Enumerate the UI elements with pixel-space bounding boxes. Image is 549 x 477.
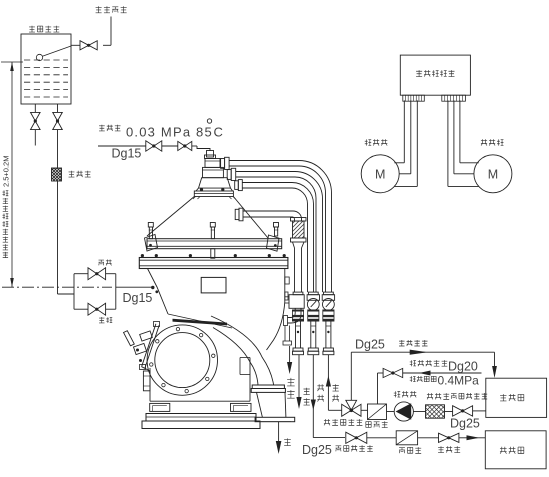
nameplate [201, 277, 226, 293]
label 冷凝器 [399, 447, 421, 453]
pump 螺杆泵 [394, 402, 413, 421]
valve 开启 [88, 303, 106, 315]
wire seal mid [162, 145, 178, 147]
tower block A [205, 159, 220, 168]
label 加热器 [366, 421, 388, 427]
label 高置水箱 [29, 26, 59, 32]
bowl cone [147, 197, 194, 237]
bowl casing left edge [148, 269, 169, 315]
wire clean water inlet [110, 17, 112, 46]
pipe P2 [242, 183, 313, 293]
line 污油 [327, 355, 329, 411]
pipe P1 [243, 211, 302, 221]
label 开启 [99, 317, 112, 323]
outlet stub 1 [221, 159, 225, 169]
bypass bottom pipe [74, 308, 88, 310]
filter 油滤器 [426, 405, 445, 418]
assembly A3 gauge [324, 292, 334, 295]
wire pump to filter [413, 411, 425, 413]
svg-text:Dg20: Dg20 [448, 360, 478, 374]
outlet stub 3 [235, 181, 239, 190]
tank 净油罐 [485, 431, 546, 469]
svg-text:Dg25: Dg25 [355, 338, 385, 352]
outlet stub 4 [235, 209, 239, 219]
wire 3way to heater [361, 409, 368, 411]
top rail [147, 239, 282, 249]
svg-text:Dg15: Dg15 [123, 291, 153, 305]
bolt B2 [210, 223, 215, 228]
label 分离机 [481, 139, 504, 145]
tank 污油罐 [486, 378, 547, 417]
label 污油循环 [399, 340, 428, 346]
svg-text:M: M [488, 167, 498, 181]
terminal strip right [442, 95, 466, 101]
chute flange joint [252, 385, 284, 389]
bypass left pipe [73, 274, 75, 310]
heater 加热器 [368, 404, 387, 420]
valve seal-2 [178, 141, 192, 150]
wire bottom row left [313, 437, 345, 439]
valve 手动三通阀 [342, 404, 361, 416]
centerline dash-dot [2, 286, 112, 288]
housing bottom [150, 400, 250, 402]
condenser 冷凝器 [396, 431, 417, 445]
cover circle inner [155, 333, 210, 388]
wire heater to pump [387, 411, 395, 413]
wire to condenser [367, 437, 396, 439]
wire bypass to machine [116, 286, 153, 288]
svg-text:M: M [375, 167, 385, 181]
foot pad right [231, 403, 252, 411]
label 止回阀 [438, 446, 460, 452]
cover diagonal plate [142, 324, 156, 367]
vent lever [124, 331, 135, 346]
label 蒸汽调节阀 [410, 360, 448, 366]
wires M1 [403, 100, 405, 162]
wire tank outlet left [34, 104, 36, 113]
label 清洁淡水 [96, 6, 127, 12]
terminal strip left [403, 95, 425, 101]
inlet nozzle [207, 151, 214, 158]
wire right outlet down [57, 130, 59, 168]
arrow 污水 A1 [298, 355, 300, 397]
base plate upper [146, 414, 256, 422]
chute column [257, 392, 263, 417]
rail end plate left [145, 235, 158, 252]
svg-text:2.5+0.2M: 2.5+0.2M [2, 156, 11, 187]
wire tank outlet right [57, 104, 59, 113]
assembly A2 gauge [308, 292, 318, 295]
foot pad left [150, 403, 170, 411]
label 蒸汽压力0.4MPa [410, 376, 436, 382]
svg-text:C: C [214, 125, 223, 140]
dark chute lip [173, 319, 228, 326]
chute outer curve [211, 316, 274, 385]
tank water level dashes [24, 59, 68, 61]
slag arrow 渣 [278, 422, 280, 441]
wires M2 [459, 100, 461, 162]
valve tank outlet right [53, 112, 63, 129]
label 净油罐 [500, 447, 524, 454]
line 净油 [312, 355, 314, 438]
bypass right pipe [115, 274, 117, 310]
wire to check valve [418, 437, 439, 439]
tower flange plate [194, 191, 233, 197]
check valve 止回阀 [439, 433, 459, 442]
tank T1 高置水箱 [21, 34, 71, 104]
cover flange strip [139, 258, 288, 269]
wire seal to inlet [192, 145, 197, 147]
tower block B [203, 167, 224, 177]
valve 流量调节阀 upper [453, 406, 473, 416]
label 污油罐 [500, 394, 524, 401]
wire to tank2 [459, 437, 485, 439]
label 流量调节阀 upper [451, 393, 487, 399]
svg-text:Dg25: Dg25 [302, 443, 332, 457]
bowl casing right edge [284, 269, 286, 303]
housing left port [143, 371, 150, 391]
dimension line 2.5+0.2M [1, 61, 23, 63]
label 电气控制箱 [416, 70, 454, 76]
sight glass on P1 [291, 218, 307, 222]
valve 密封 [88, 268, 106, 280]
chute bottom flange [255, 417, 295, 421]
bolt B3 [274, 223, 279, 228]
wire filter to bypass [57, 181, 59, 294]
float valve [36, 54, 42, 60]
label 密封 [99, 260, 112, 266]
wire water seal [98, 145, 146, 147]
svg-text:Dg25: Dg25 [450, 417, 480, 431]
steam supply line [403, 372, 482, 374]
recirc line [350, 352, 352, 400]
valve seal-1 [146, 141, 162, 151]
pipe P3 [236, 172, 323, 293]
outlet stub 2 [227, 170, 231, 180]
label 油滤器 [427, 393, 449, 399]
valve 蒸汽调节阀 [383, 368, 403, 377]
svg-text:Dg15: Dg15 [112, 147, 142, 161]
label 水封水 [99, 125, 121, 131]
svg-text:0.4MPa: 0.4MPa [438, 374, 480, 388]
filter 水滤器 [52, 168, 62, 181]
flange bolts row [141, 254, 144, 257]
wire filter to valve [445, 411, 453, 413]
rail end plate right [267, 235, 280, 251]
base plate lower [142, 421, 260, 429]
cover bolt circle [176, 327, 179, 330]
valve tank outlet left [31, 112, 41, 129]
cover circle outer [147, 325, 217, 395]
valve 流量调节阀 bottom [346, 432, 367, 443]
casing bottom edge [168, 314, 232, 328]
arrow 污水 spout [289, 346, 291, 362]
motor M2 分离机 [474, 155, 512, 193]
bolt B1 [148, 223, 153, 228]
housing right edge [249, 358, 251, 402]
label 流量调节阀 bottom [336, 445, 373, 451]
label 手动三通阀 [324, 419, 363, 425]
casing right tab [285, 277, 289, 284]
chute casing curve [267, 302, 285, 350]
label 螺杆泵 pump [394, 391, 417, 397]
steam line [377, 373, 379, 404]
tower bell [199, 178, 231, 188]
valve clean-water [80, 41, 97, 50]
svg-text:0.03 MPa 85: 0.03 MPa 85 [126, 125, 213, 140]
bypass top pipe [74, 273, 88, 275]
label 螺杆泵 motor [365, 139, 388, 145]
water spout elbow [288, 308, 302, 323]
assembly A1 manifold [289, 295, 304, 309]
chute inner curve 2 [213, 328, 258, 386]
pipe P4 [229, 161, 331, 293]
housing left edge [149, 368, 151, 401]
control box 电气控制箱 [400, 55, 470, 95]
motor M1 螺杆泵 [361, 155, 399, 193]
wire valve to tank1 [473, 410, 486, 412]
wire below left valve [34, 130, 36, 146]
